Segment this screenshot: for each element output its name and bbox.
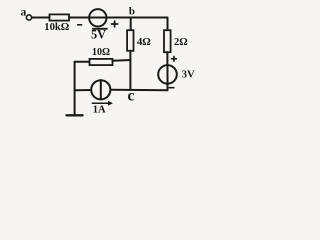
wire R to 5V source bbox=[69, 17, 88, 19]
bottom rail right of 1A bbox=[111, 89, 168, 91]
svg-text:a: a bbox=[21, 7, 27, 19]
svg-text:1A: 1A bbox=[93, 105, 106, 116]
minus sign of 3V bbox=[169, 87, 174, 89]
wire 10 Ohm to middle vertical bbox=[113, 59, 131, 62]
left vertical wire bbox=[74, 62, 76, 115]
svg-text:4Ω: 4Ω bbox=[137, 37, 151, 48]
svg-text:c: c bbox=[128, 88, 135, 105]
wire corner down to 2 Ohm bbox=[167, 18, 169, 31]
svg-text:b: b bbox=[129, 5, 135, 17]
wire b down to 4 Ohm bbox=[130, 18, 132, 31]
plus sign of 3V bbox=[172, 57, 177, 62]
voltage source 5V bbox=[89, 9, 106, 26]
left corner of 10 Ohm loop bbox=[75, 61, 90, 63]
resistor 2 Ohm bbox=[164, 30, 171, 52]
svg-text:5V: 5V bbox=[91, 28, 106, 42]
wire 5V to corner bbox=[107, 17, 167, 19]
resistor 10 Ohm bbox=[90, 59, 113, 65]
bar under 5V circle bbox=[93, 28, 107, 30]
current source 1A bbox=[91, 80, 110, 99]
minus sign of 5V bbox=[78, 24, 82, 26]
svg-text:10kΩ: 10kΩ bbox=[44, 22, 69, 33]
wire a to R 10k bbox=[32, 17, 49, 19]
bottom rail left of 1A bbox=[75, 89, 92, 91]
current arrow of 1A bbox=[92, 102, 108, 104]
wire 2 Ohm to 3V bbox=[166, 52, 168, 64]
wire 3V to rail bbox=[167, 84, 169, 90]
wire 4 Ohm to node c bbox=[129, 51, 131, 90]
svg-text:10Ω: 10Ω bbox=[92, 47, 110, 58]
svg-text:2Ω: 2Ω bbox=[174, 37, 188, 48]
plus sign of 5V bbox=[112, 21, 118, 27]
ground bar bbox=[67, 114, 83, 116]
voltage source 3V bbox=[158, 65, 177, 84]
resistor 10kOhm bbox=[50, 14, 70, 20]
terminal a open circle bbox=[26, 15, 31, 20]
svg-text:3V: 3V bbox=[182, 70, 195, 81]
resistor 4 Ohm bbox=[127, 30, 133, 51]
